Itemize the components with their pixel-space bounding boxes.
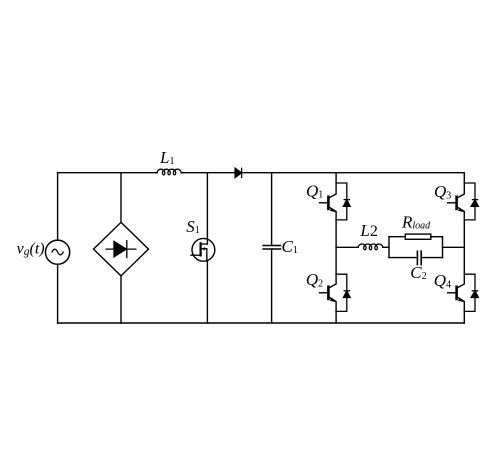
AC source vg(t) — [46, 240, 70, 264]
svg-text:L1: L1 — [159, 148, 174, 167]
wire load to right leg — [443, 246, 465, 248]
svg-text:L2: L2 — [359, 221, 377, 240]
svg-text:C1: C1 — [282, 237, 298, 256]
wire left vertical above source — [57, 173, 59, 240]
wire H-bridge right leg top — [463, 173, 465, 183]
wire S1 bottom — [206, 256, 209, 323]
wire H-bridge left leg top — [335, 173, 337, 183]
wire L2 to box — [383, 246, 389, 248]
wire H-bridge left leg bottom — [335, 311, 337, 323]
svg-text:S1: S1 — [186, 217, 200, 236]
svg-text:Q4: Q4 — [434, 271, 451, 290]
wire box top-right — [431, 236, 443, 238]
wire bottom rail — [58, 322, 465, 324]
wire left vertical below source — [57, 264, 59, 323]
transistor Q3 IGBT — [448, 183, 465, 220]
svg-text:Q2: Q2 — [306, 270, 323, 289]
wire H-bridge right leg bottom — [463, 311, 465, 323]
diode Q4 antiparallel — [464, 274, 478, 311]
svg-text:vg(t): vg(t) — [17, 240, 45, 258]
svg-text:Rload: Rload — [401, 212, 431, 231]
diode Q2 antiparallel — [336, 274, 350, 311]
bridge inner diode — [106, 241, 136, 258]
wire top rail left segment — [58, 172, 158, 174]
svg-text:Q1: Q1 — [306, 181, 323, 200]
diode Q3 antiparallel — [464, 183, 478, 220]
svg-text:C2: C2 — [410, 263, 426, 282]
wire top rail middle segment — [181, 172, 235, 174]
node box left — [388, 237, 390, 258]
transistor Q4 IGBT — [448, 274, 465, 311]
wire bridge top — [120, 173, 122, 223]
switch S1 MOSFET — [192, 238, 215, 261]
capacitor C2 — [417, 251, 421, 264]
svg-text:Q3: Q3 — [434, 182, 451, 201]
inductor L1 — [157, 169, 181, 175]
wire bridge bottom — [120, 276, 122, 323]
diode D1 top rail — [235, 168, 242, 177]
transistor Q2 IGBT — [320, 274, 337, 311]
wire S1 top — [206, 173, 208, 244]
wire box bottom-left — [389, 257, 417, 259]
resistor Rload — [405, 234, 431, 239]
wire box top-left — [389, 236, 405, 238]
wire box bottom-right — [421, 257, 442, 259]
capacitor C1 — [263, 246, 280, 250]
bridge rectifier diamond — [94, 222, 149, 276]
node box right — [442, 237, 444, 258]
inductor L2 — [358, 244, 383, 250]
wire C1 top — [271, 173, 273, 246]
wire H-bridge right leg middle — [463, 220, 465, 274]
wire H-bridge left leg middle — [335, 220, 337, 274]
diode Q1 antiparallel — [336, 183, 350, 220]
wire C1 bottom — [271, 249, 273, 323]
wire top rail right segment — [242, 172, 465, 174]
wire load tap left — [336, 246, 358, 248]
transistor Q1 IGBT — [320, 183, 337, 220]
